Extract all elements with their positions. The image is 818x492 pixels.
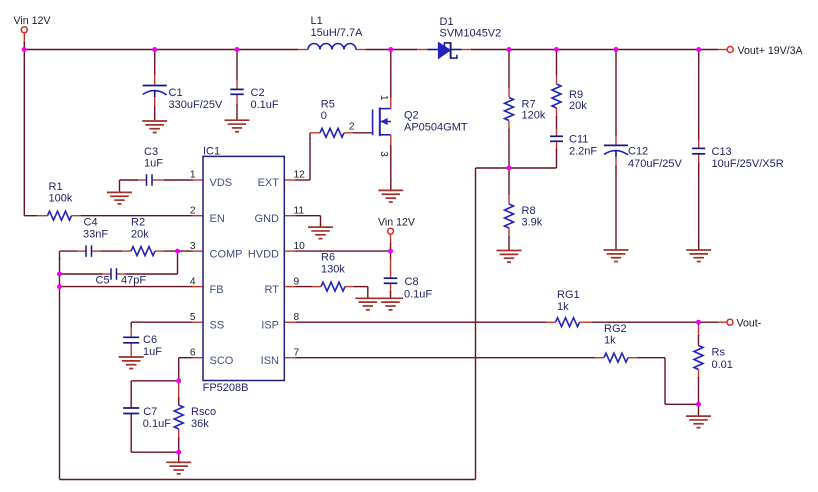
ground for C6 — [119, 357, 144, 369]
wire Vout- terminal stub — [699, 321, 728, 323]
ground for R8 — [497, 251, 522, 263]
wire C5 row left — [60, 273, 112, 275]
junction dot HVDD node — [388, 249, 393, 254]
resistor R5 0 — [320, 99, 344, 138]
svg-text:Rs: Rs — [712, 347, 726, 359]
wire RT to R6 — [284, 286, 321, 288]
svg-text:Vin 12V: Vin 12V — [378, 217, 416, 229]
svg-text:0: 0 — [321, 110, 327, 122]
svg-text:1: 1 — [378, 95, 389, 101]
svg-text:L1: L1 — [311, 15, 323, 27]
svg-text:1uF: 1uF — [144, 158, 163, 170]
svg-text:HVDD: HVDD — [248, 248, 279, 260]
ground for C1 — [142, 121, 167, 133]
svg-text:Rsco: Rsco — [191, 406, 216, 418]
junction dot COMP node — [175, 249, 180, 254]
capacitor C6 1uF — [123, 334, 162, 358]
svg-text:1k: 1k — [557, 301, 569, 313]
inductor L1 — [308, 15, 363, 50]
junction dot Vout- node — [696, 320, 701, 325]
IC U1 FP5208B box — [203, 146, 285, 394]
svg-text:C8: C8 — [405, 276, 419, 288]
svg-text:C1: C1 — [169, 87, 183, 99]
svg-text:1: 1 — [190, 170, 196, 181]
svg-text:15uH/7.7A: 15uH/7.7A — [311, 27, 364, 39]
svg-text:2: 2 — [190, 205, 196, 216]
svg-text:Vout+ 19V/3A: Vout+ 19V/3A — [738, 45, 804, 57]
svg-text:36k: 36k — [191, 418, 209, 430]
wire FB row — [60, 286, 204, 288]
svg-text:3: 3 — [190, 241, 196, 252]
svg-text:Q2: Q2 — [404, 110, 419, 122]
wire Vin column down to R1 — [24, 50, 47, 216]
wire R6 to ground — [345, 287, 368, 299]
wire R7 stems — [508, 50, 510, 169]
svg-text:C5: C5 — [96, 275, 110, 287]
svg-text:20k: 20k — [131, 229, 149, 241]
transistor Q2 AP0504GMT (N-MOSFET) — [349, 50, 468, 191]
svg-text:AP0504GMT: AP0504GMT — [404, 122, 468, 134]
svg-text:R9: R9 — [569, 89, 583, 101]
wire Vin terminal drop — [23, 33, 25, 50]
svg-text:SCO: SCO — [210, 355, 234, 367]
ground for C12 — [604, 250, 629, 262]
wire R9 stems — [556, 50, 558, 137]
svg-text:R5: R5 — [321, 99, 335, 111]
wire Rsco stems — [178, 381, 180, 452]
ground for Q2 source — [378, 190, 403, 202]
svg-text:3: 3 — [378, 151, 389, 157]
wire RG1 to Vout- node — [580, 321, 699, 323]
resistor R7 120k — [505, 98, 546, 122]
wire C3 left to ground — [120, 180, 147, 192]
wire divider node row — [476, 167, 557, 169]
ground for Rs — [686, 416, 711, 428]
wire C7 Rsco top rail — [131, 381, 179, 452]
resistor RG1 1k — [556, 289, 580, 327]
junction dot Rsco bottom node — [176, 450, 181, 455]
wire COMP left corner to C4 — [60, 251, 87, 260]
capacitor C4 33nF — [83, 217, 108, 257]
svg-text:C6: C6 — [143, 334, 157, 346]
wire R8 stems — [508, 168, 510, 251]
junction dots on top rail — [22, 47, 701, 52]
wire RG2 to Rs bottom — [628, 358, 699, 405]
node Vin 12V terminal (top left) — [14, 15, 52, 33]
svg-text:VDS: VDS — [210, 177, 233, 189]
svg-text:6: 6 — [190, 347, 196, 358]
svg-text:SS: SS — [210, 319, 225, 331]
node Vin 12V terminal (HVDD) — [378, 217, 416, 235]
junction dot C5 node — [57, 272, 62, 277]
svg-text:0.1uF: 0.1uF — [251, 99, 279, 111]
junction dot FB node — [57, 284, 62, 289]
svg-text:11: 11 — [294, 205, 305, 216]
junction dot R7/R8 divider node — [507, 166, 512, 171]
wire SS row — [131, 322, 203, 337]
svg-text:IC1: IC1 — [203, 146, 220, 158]
wire Vin2 terminal stem — [390, 234, 392, 251]
ground for C2 — [225, 120, 250, 132]
wire C2 stem — [236, 50, 238, 121]
svg-text:EXT: EXT — [258, 177, 280, 189]
wire C7 Rsco bottom rail — [131, 452, 179, 462]
wire C5 row right — [117, 251, 178, 274]
wire top rail L1 to D1 — [356, 49, 427, 51]
svg-text:C4: C4 — [84, 217, 98, 229]
svg-text:R6: R6 — [321, 252, 335, 264]
svg-text:47pF: 47pF — [121, 275, 146, 287]
resistor R8 3.9k — [505, 204, 543, 229]
svg-text:120k: 120k — [522, 110, 546, 122]
IC1 pin names — [210, 177, 280, 367]
resistor R6 130k — [321, 252, 345, 292]
wire C3 to VDS pin — [152, 179, 203, 181]
ground for C3 — [107, 192, 132, 204]
svg-text:R7: R7 — [522, 98, 536, 110]
wire R5 to gate — [344, 132, 373, 134]
resistor R9 20k — [552, 84, 587, 112]
capacitor C2 0.1uF — [230, 87, 279, 111]
svg-text:C2: C2 — [251, 87, 265, 99]
svg-text:C11: C11 — [569, 134, 588, 146]
capacitor C3 1uF — [144, 146, 163, 186]
resistor Rs 0.01 — [694, 346, 733, 372]
junction dot SCO node — [176, 378, 181, 383]
svg-text:10uF/25V/X5R: 10uF/25V/X5R — [712, 158, 784, 170]
svg-text:330uF/25V: 330uF/25V — [169, 99, 223, 111]
wire top rail D1 to Vout+ — [462, 49, 728, 51]
svg-text:SVM1045V2: SVM1045V2 — [440, 28, 502, 40]
ground for C8 — [378, 298, 403, 310]
resistor R1 100k — [48, 181, 73, 220]
wire R2 to COMP pin — [155, 250, 203, 252]
svg-text:RG2: RG2 — [604, 323, 627, 335]
wire HVDD row — [284, 250, 390, 252]
svg-text:4: 4 — [190, 276, 196, 287]
svg-text:D1: D1 — [440, 16, 454, 28]
wire Rs stems — [698, 322, 700, 416]
wire left column C4/C5/FB — [59, 258, 61, 480]
svg-text:ISN: ISN — [261, 355, 279, 367]
svg-text:33nF: 33nF — [83, 229, 108, 241]
wire C1 stem — [154, 50, 156, 122]
ground for Rsco/C7 — [166, 462, 191, 474]
svg-text:20k: 20k — [569, 100, 587, 112]
wire SCO row — [179, 358, 203, 381]
svg-text:C12: C12 — [628, 146, 648, 158]
node Vout- terminal — [727, 317, 762, 329]
capacitor C5 47pF — [96, 268, 147, 286]
svg-text:COMP: COMP — [210, 248, 243, 260]
wire C4 to R2 — [92, 250, 132, 252]
svg-text:130k: 130k — [321, 264, 345, 276]
svg-text:5: 5 — [190, 312, 196, 323]
svg-text:2: 2 — [349, 122, 355, 133]
svg-text:Vin 12V: Vin 12V — [14, 15, 52, 27]
capacitor C7 0.1uF — [123, 406, 171, 430]
wire C8 stem — [390, 251, 392, 298]
svg-text:C7: C7 — [143, 406, 157, 418]
svg-text:1uF: 1uF — [143, 346, 162, 358]
wire C13 stems — [698, 50, 700, 251]
svg-text:10: 10 — [294, 241, 306, 252]
svg-text:ISP: ISP — [261, 319, 279, 331]
svg-text:0.1uF: 0.1uF — [404, 288, 432, 300]
svg-text:RG1: RG1 — [557, 289, 580, 301]
svg-text:100k: 100k — [49, 193, 73, 205]
capacitor C11 2.2nF — [550, 134, 597, 158]
svg-text:12: 12 — [294, 170, 306, 181]
svg-text:2.2nF: 2.2nF — [569, 146, 597, 158]
capacitor C1 330uF/25V (electrolytic) — [143, 86, 223, 112]
svg-text:Vout-: Vout- — [737, 317, 762, 329]
node Vout+ 19V/3A terminal — [727, 45, 803, 57]
IC1 pin numbers — [190, 170, 305, 359]
wire GND pin to ground — [284, 216, 320, 227]
svg-text:0.01: 0.01 — [712, 359, 733, 371]
wire bottom feedback run — [60, 168, 476, 480]
resistor R2 20k — [131, 217, 155, 256]
wire C12 stems — [615, 50, 617, 251]
wire EXT to R5 — [284, 133, 320, 180]
ground for C13 — [686, 250, 711, 262]
svg-text:7: 7 — [294, 347, 300, 358]
resistor Rsco 36k — [174, 405, 216, 430]
svg-text:3.9k: 3.9k — [522, 217, 543, 229]
svg-text:9: 9 — [294, 276, 300, 287]
capacitor C12 470uF/25V (electrolytic) — [604, 145, 682, 170]
wire R1 to EN pin — [72, 215, 204, 217]
svg-text:C3: C3 — [144, 146, 158, 158]
ground for GND pin 11 — [308, 227, 333, 239]
wire ISP to RG1 — [284, 321, 555, 323]
ground for R6 — [355, 298, 380, 310]
svg-text:0.1uF: 0.1uF — [143, 418, 171, 430]
svg-text:8: 8 — [294, 312, 300, 323]
svg-text:FB: FB — [210, 284, 224, 296]
svg-text:FP5208B: FP5208B — [203, 382, 249, 394]
svg-text:R1: R1 — [49, 181, 63, 193]
svg-text:R2: R2 — [131, 217, 145, 229]
diode D1 SVM1045V2 — [427, 16, 501, 59]
capacitor C8 0.1uF — [384, 276, 433, 300]
capacitor C13 10uF/25V/X5R — [692, 146, 784, 170]
svg-text:C13: C13 — [712, 146, 732, 158]
svg-text:GND: GND — [255, 213, 280, 225]
svg-text:R8: R8 — [522, 205, 536, 217]
wire ISN to RG2 — [284, 357, 604, 359]
wire top rail Vin to L1 — [24, 49, 308, 51]
svg-text:RT: RT — [265, 284, 280, 296]
wire C11 bottom stem — [556, 141, 558, 168]
svg-text:470uF/25V: 470uF/25V — [628, 158, 682, 170]
resistor RG2 1k — [604, 323, 628, 362]
wire C6 stem to ground — [130, 343, 132, 357]
junction dot Rs bottom node — [696, 402, 701, 407]
svg-text:1k: 1k — [604, 335, 616, 347]
svg-text:EN: EN — [210, 213, 225, 225]
